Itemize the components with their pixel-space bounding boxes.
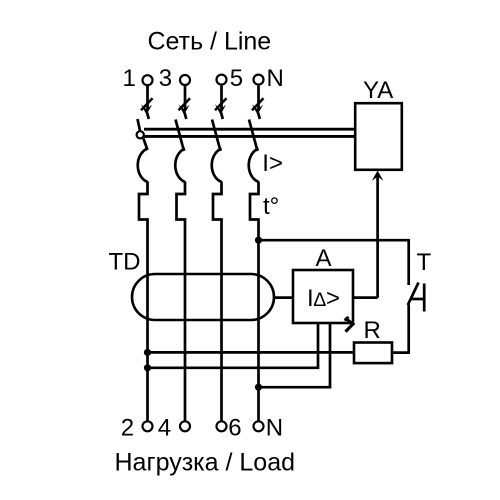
trip arrow pole 2	[178, 98, 190, 119]
wire: toroid to A box	[274, 296, 293, 299]
terminal label 1	[123, 65, 136, 92]
wire: pole 2 top lead	[184, 86, 187, 111]
wire: pole 1 top lead	[146, 86, 149, 111]
release solenoid YA	[355, 103, 402, 170]
label YA	[363, 77, 393, 104]
terminal 3 (top circle)	[180, 75, 190, 85]
wire: A box output	[353, 296, 378, 299]
label I> (overcurrent release)	[262, 150, 283, 177]
svg-text:t°: t°	[263, 193, 279, 220]
trip arrow pole 3	[215, 98, 227, 119]
svg-text:Сеть / Line: Сеть / Line	[148, 27, 272, 55]
thermal element pole 2 and pole 2 lower wire	[177, 182, 186, 422]
svg-text:TD: TD	[109, 249, 141, 276]
svg-text:6: 6	[228, 415, 241, 442]
terminal label 5	[230, 65, 243, 92]
trip arrow pole 1	[141, 98, 153, 119]
trip bar (double line to YA)	[144, 129, 356, 136]
trip arrow pole 4	[252, 98, 264, 119]
coil pole 4	[249, 149, 259, 183]
svg-text:2: 2	[121, 415, 134, 442]
terminal label 6	[228, 415, 241, 442]
terminal 5 (top circle)	[217, 75, 227, 85]
label IΔ> inside A box	[307, 285, 340, 312]
switch blade pole 4	[249, 120, 258, 152]
coil pole 1	[138, 149, 148, 183]
test button T contact blade	[408, 283, 419, 306]
svg-text:1: 1	[123, 65, 136, 92]
node: N pole junction (bottom)	[255, 384, 262, 391]
svg-text:Δ: Δ	[313, 289, 326, 311]
adjustment arrow on A box	[345, 317, 353, 332]
svg-text:>: >	[326, 285, 340, 312]
terminal N (bottom circle)	[254, 421, 264, 431]
terminal label 2	[121, 415, 134, 442]
switch blade pole 2	[176, 120, 185, 152]
current transformer TD (toroid)	[132, 274, 274, 320]
switch blade pole 3	[212, 120, 221, 152]
svg-text:YA: YA	[363, 77, 393, 104]
wire: N pole to A box supply	[259, 322, 331, 387]
svg-text:3: 3	[159, 65, 172, 92]
switch blade pole 1	[138, 119, 148, 150]
terminal 2 (bottom circle)	[143, 421, 153, 431]
test button T actuator	[412, 284, 425, 312]
thermal element pole 4 and pole 4 lower wire	[250, 182, 259, 422]
resistor R	[354, 343, 392, 364]
terminal N (top circle)	[254, 75, 264, 85]
wire: pole 3 top lead	[220, 86, 223, 111]
node: pole 1 junction (wire 2)	[144, 364, 151, 371]
svg-text:R: R	[364, 317, 381, 344]
terminal 1 (top circle)	[143, 75, 153, 85]
label A	[316, 245, 332, 272]
label: Сеть / Line	[148, 27, 272, 55]
thermal element pole 3 and pole 3 lower wire	[213, 182, 222, 422]
svg-text:I>: I>	[262, 150, 283, 177]
node: pole 1 junction (wire 1)	[144, 349, 151, 356]
label: Нагрузка / Load	[115, 449, 296, 477]
svg-text:4: 4	[158, 415, 171, 442]
terminal label 3	[159, 65, 172, 92]
svg-text:T: T	[417, 249, 432, 276]
label TD	[109, 249, 141, 276]
svg-text:5: 5	[230, 65, 243, 92]
wire: pole 4 top lead	[257, 86, 260, 111]
terminal 6 (bottom circle)	[217, 421, 227, 431]
wire: test button to resistor R	[392, 305, 409, 353]
svg-text:N: N	[267, 65, 284, 92]
terminal label N top	[267, 65, 284, 92]
coil pole 2	[175, 149, 185, 183]
amplifier A box	[293, 270, 353, 323]
wire: N junction to test button	[259, 240, 409, 285]
label T	[417, 249, 432, 276]
node: N pole junction (top)	[255, 237, 262, 244]
trip bar pivot ring	[137, 131, 144, 138]
wire: pole 1 to A box supply	[148, 322, 319, 368]
label t° (thermal release)	[263, 193, 279, 220]
wire: pole 1 to resistor R	[148, 351, 355, 354]
wire: amplifier output to YA with up arrow	[372, 171, 384, 298]
label R	[364, 317, 381, 344]
thermal element pole 1 and pole 1 lower wire	[139, 182, 148, 422]
svg-text:N: N	[266, 415, 283, 442]
terminal label 4	[158, 415, 171, 442]
terminal label N bottom	[266, 415, 283, 442]
terminal 4 (bottom circle)	[180, 421, 190, 431]
svg-text:Нагрузка / Load: Нагрузка / Load	[115, 449, 296, 477]
coil pole 3	[212, 149, 222, 183]
svg-text:A: A	[316, 245, 332, 272]
